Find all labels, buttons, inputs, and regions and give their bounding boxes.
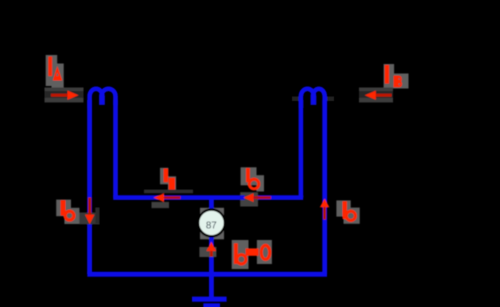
wire: right inner leg (right CT to bus) — [299, 100, 304, 198]
wire: middle bus — [113, 195, 303, 200]
primary conductor remnant left of right CT — [292, 97, 300, 102]
arrow I_A (top-left, points right) — [45, 88, 84, 103]
arrow operate current (points up into relay) — [206, 242, 216, 257]
primary conductor remnant right of right CT — [326, 97, 334, 102]
label i_a' (left outer wire) — [56, 200, 79, 224]
wire: right outer vertical — [322, 100, 327, 274]
wire: ground stem — [209, 274, 214, 297]
label i_b' (right outer wire) — [336, 200, 359, 223]
arrow i_b' (right outer wire, points up) — [320, 199, 330, 220]
label I_o = O (bottom middle) — [232, 240, 272, 269]
ground bar 2 — [203, 303, 220, 307]
label i_a' (above left bus arrow) — [160, 168, 176, 191]
wire: left outer vertical — [87, 100, 92, 274]
CT coil left (secondary winding) — [90, 89, 116, 108]
grey patch behind operate arrow — [199, 247, 216, 257]
arrow i_b' (on middle bus, points left) — [240, 192, 271, 206]
ground bar 1 — [192, 297, 227, 302]
arrow i_a' (left outer wire, points down) — [80, 198, 100, 225]
relay operating coil 87 (differential relay) — [198, 210, 225, 237]
grey box behind relay circle — [200, 208, 224, 240]
arrow I_B (top-right, points left) — [359, 88, 393, 103]
wire: left inner leg (left CT to bus) — [113, 100, 118, 198]
label I_A text — [48, 57, 62, 81]
svg-text:87: 87 — [206, 220, 217, 231]
label i_b' (above right bus arrow) — [241, 167, 264, 191]
CT coil right (secondary winding) — [301, 89, 325, 108]
label I_B box (top-right) — [384, 64, 409, 89]
wire: relay branch vertical (bus junction to bottom bus) — [209, 198, 214, 275]
wire: bottom bus — [87, 272, 327, 277]
label I_B text — [385, 65, 402, 87]
label I_A box (top-left) — [46, 55, 64, 89]
arrow i_a' (on middle bus, points left) — [144, 190, 193, 208]
